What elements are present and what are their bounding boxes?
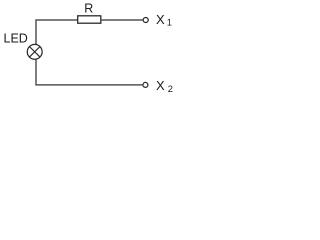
svg-text:1: 1: [167, 18, 172, 28]
svg-text:LED: LED: [4, 32, 28, 46]
svg-text:X: X: [156, 78, 165, 93]
svg-text:R: R: [84, 2, 93, 16]
svg-text:X: X: [156, 12, 165, 27]
svg-text:2: 2: [168, 84, 173, 94]
